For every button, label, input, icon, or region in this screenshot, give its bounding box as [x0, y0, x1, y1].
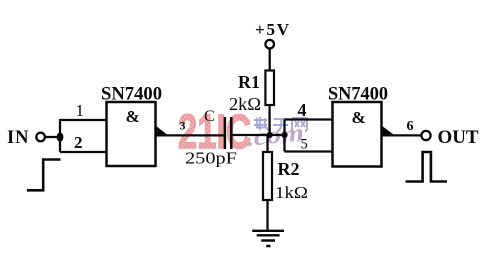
wire pin 4: [285, 118, 334, 120]
op-amp U2 SN7400 gate body: [333, 102, 382, 167]
svg-text:OUT: OUT: [438, 127, 479, 148]
svg-text:IN: IN: [7, 128, 29, 148]
svg-text:&: &: [126, 107, 140, 126]
svg-text:SN7400: SN7400: [101, 84, 162, 105]
svg-text:&: &: [352, 108, 366, 127]
input step waveform: [27, 160, 61, 191]
wire node B vertical connector: [283, 120, 285, 152]
wire +5V to R1: [269, 49, 271, 71]
terminal OUT circle: [421, 131, 430, 140]
resistor R1 body: [265, 71, 274, 106]
resistor R2 body: [263, 152, 272, 200]
wire pin 1: [60, 119, 107, 121]
svg-text:2: 2: [74, 133, 83, 152]
terminal +5V circle: [265, 40, 274, 49]
terminal IN circle: [36, 133, 45, 142]
output pulse waveform: [406, 152, 448, 182]
wire pin 3 to capacitor: [156, 134, 224, 136]
wire pin 5: [285, 150, 334, 152]
op-amp U1 SN7400 gate body: [107, 102, 156, 166]
svg-text:3: 3: [180, 118, 186, 132]
junction dot input node: [57, 132, 64, 141]
svg-text:+5V: +5V: [255, 20, 290, 39]
gate U2 output inverter triangle: [382, 126, 395, 136]
svg-text:1kΩ: 1kΩ: [275, 183, 308, 202]
node B junction dot (split to pins 4,5): [281, 132, 287, 138]
watermark 电子网 glyphs: [254, 117, 307, 131]
svg-text:SN7400: SN7400: [328, 84, 388, 105]
wire input vertical connector: [59, 119, 61, 152]
svg-text:250pF: 250pF: [185, 149, 237, 168]
gate U1 output inverter triangle: [156, 126, 169, 136]
svg-text:6: 6: [407, 119, 414, 134]
svg-text:1: 1: [76, 101, 85, 120]
node A junction dot (R1/R2/C): [267, 132, 273, 138]
wire capacitor to node A: [233, 134, 285, 136]
svg-text:2kΩ: 2kΩ: [229, 94, 261, 114]
wire pin 6 to OUT: [382, 134, 421, 136]
wire pin 2: [60, 151, 107, 153]
wire R1 to node A: [268, 105, 270, 135]
ground symbol: [252, 231, 284, 246]
svg-text:5: 5: [301, 137, 308, 153]
wire IN to junction: [45, 136, 60, 138]
svg-text:C: C: [204, 108, 215, 125]
capacitor C plates: [225, 117, 231, 149]
svg-text:4: 4: [298, 100, 307, 120]
wire node A to R2: [266, 135, 268, 152]
svg-text:R2: R2: [278, 159, 300, 179]
svg-text:R1: R1: [238, 72, 260, 92]
wire R2 to ground: [266, 200, 268, 231]
